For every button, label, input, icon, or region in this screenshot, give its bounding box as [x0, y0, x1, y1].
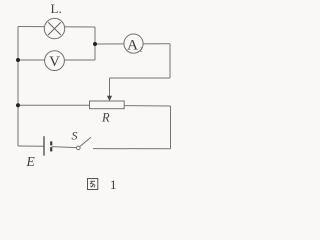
wire wiper vertical: [109, 78, 111, 97]
svg-text:L.: L.: [51, 1, 62, 16]
wire right connector lamp/voltmeter join: [94, 27, 96, 60]
lamp L bulb circle: [44, 18, 64, 38]
wire right vertical lower: [170, 106, 172, 149]
battery E short plate: [50, 141, 52, 145]
wire left rail: [17, 27, 19, 147]
svg-text:2: 2: [140, 48, 143, 54]
wire top row lamp branch: [18, 26, 95, 29]
junction node at voltmeter tap: [16, 58, 20, 62]
caption character tu (drawn): [88, 179, 98, 190]
wire voltmeter branch: [18, 59, 95, 61]
svg-text:E: E: [26, 154, 36, 169]
junction node at rheostat tap: [16, 103, 20, 107]
wire battery to switch: [52, 147, 77, 148]
rheostat R box: [90, 101, 125, 109]
battery E long plate: [43, 136, 45, 155]
junction node lamp/voltmeter to ammeter: [93, 42, 97, 46]
wire bottom left segment: [18, 145, 44, 147]
wire to ammeter: [95, 43, 170, 45]
svg-text:1: 1: [110, 177, 117, 192]
ammeter A circle: [124, 34, 143, 53]
switch S pivot circle: [77, 146, 81, 150]
wire right vertical upper: [169, 44, 171, 78]
rheostat wiper arrowhead: [107, 96, 112, 101]
lamp cross: [48, 22, 61, 35]
svg-text:R: R: [101, 111, 110, 125]
switch S blade: [80, 137, 91, 146]
wire rheostat right terminal: [124, 105, 170, 107]
wire wiper horizontal: [110, 77, 171, 79]
wire rheostat left terminal: [18, 104, 90, 106]
svg-text:V: V: [49, 54, 60, 70]
wire bottom right segment: [93, 148, 171, 150]
voltmeter V circle: [45, 51, 65, 71]
svg-text:S: S: [72, 129, 78, 143]
svg-text:A: A: [127, 37, 138, 53]
